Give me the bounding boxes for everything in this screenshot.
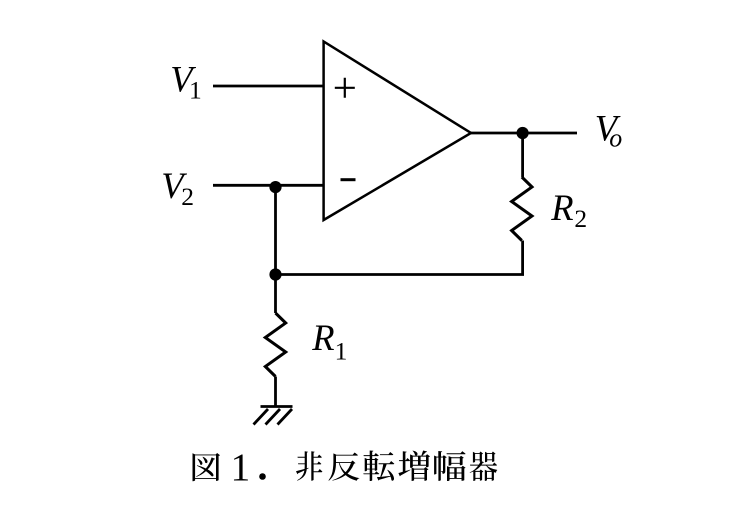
- svg-text:2: 2: [181, 182, 194, 211]
- op-amp minus input marker: [341, 178, 356, 181]
- wire R2 bottom to feedback corner: [276, 241, 523, 275]
- caption text 増: [398, 451, 430, 482]
- node output junction: [517, 127, 529, 139]
- wire V2 input to inverting pin: [213, 184, 324, 187]
- svg-text:1: 1: [231, 445, 251, 489]
- wire output node down to R2: [521, 133, 524, 177]
- caption text 非: [296, 451, 322, 480]
- wire output from op-amp to Vo: [471, 132, 577, 135]
- node feedback junction: [269, 268, 281, 280]
- resistor R2: [512, 177, 532, 241]
- svg-text:R: R: [311, 317, 334, 358]
- op-amp plus input marker: [335, 78, 355, 98]
- wire R1 to ground: [274, 377, 277, 407]
- caption text 図: [193, 453, 221, 481]
- wire inverting node down from V2 wire: [274, 185, 277, 274]
- op-amp U1: [324, 42, 471, 221]
- svg-text:o: o: [609, 124, 622, 153]
- caption text 反: [329, 453, 360, 481]
- svg-text:1: 1: [189, 75, 202, 104]
- svg-text:R: R: [550, 187, 573, 228]
- svg-text:2: 2: [574, 204, 587, 233]
- wire feedback node to R1: [274, 275, 277, 314]
- caption text 幅: [434, 451, 466, 481]
- svg-text:1: 1: [335, 336, 348, 365]
- caption text 器: [470, 452, 498, 482]
- node junction on V2 wire: [269, 181, 281, 193]
- wire V1 input to non-inverting pin: [213, 85, 324, 88]
- ground: [254, 407, 293, 425]
- caption text 転: [363, 451, 394, 482]
- resistor R1: [265, 313, 285, 377]
- caption full stop: [259, 473, 266, 480]
